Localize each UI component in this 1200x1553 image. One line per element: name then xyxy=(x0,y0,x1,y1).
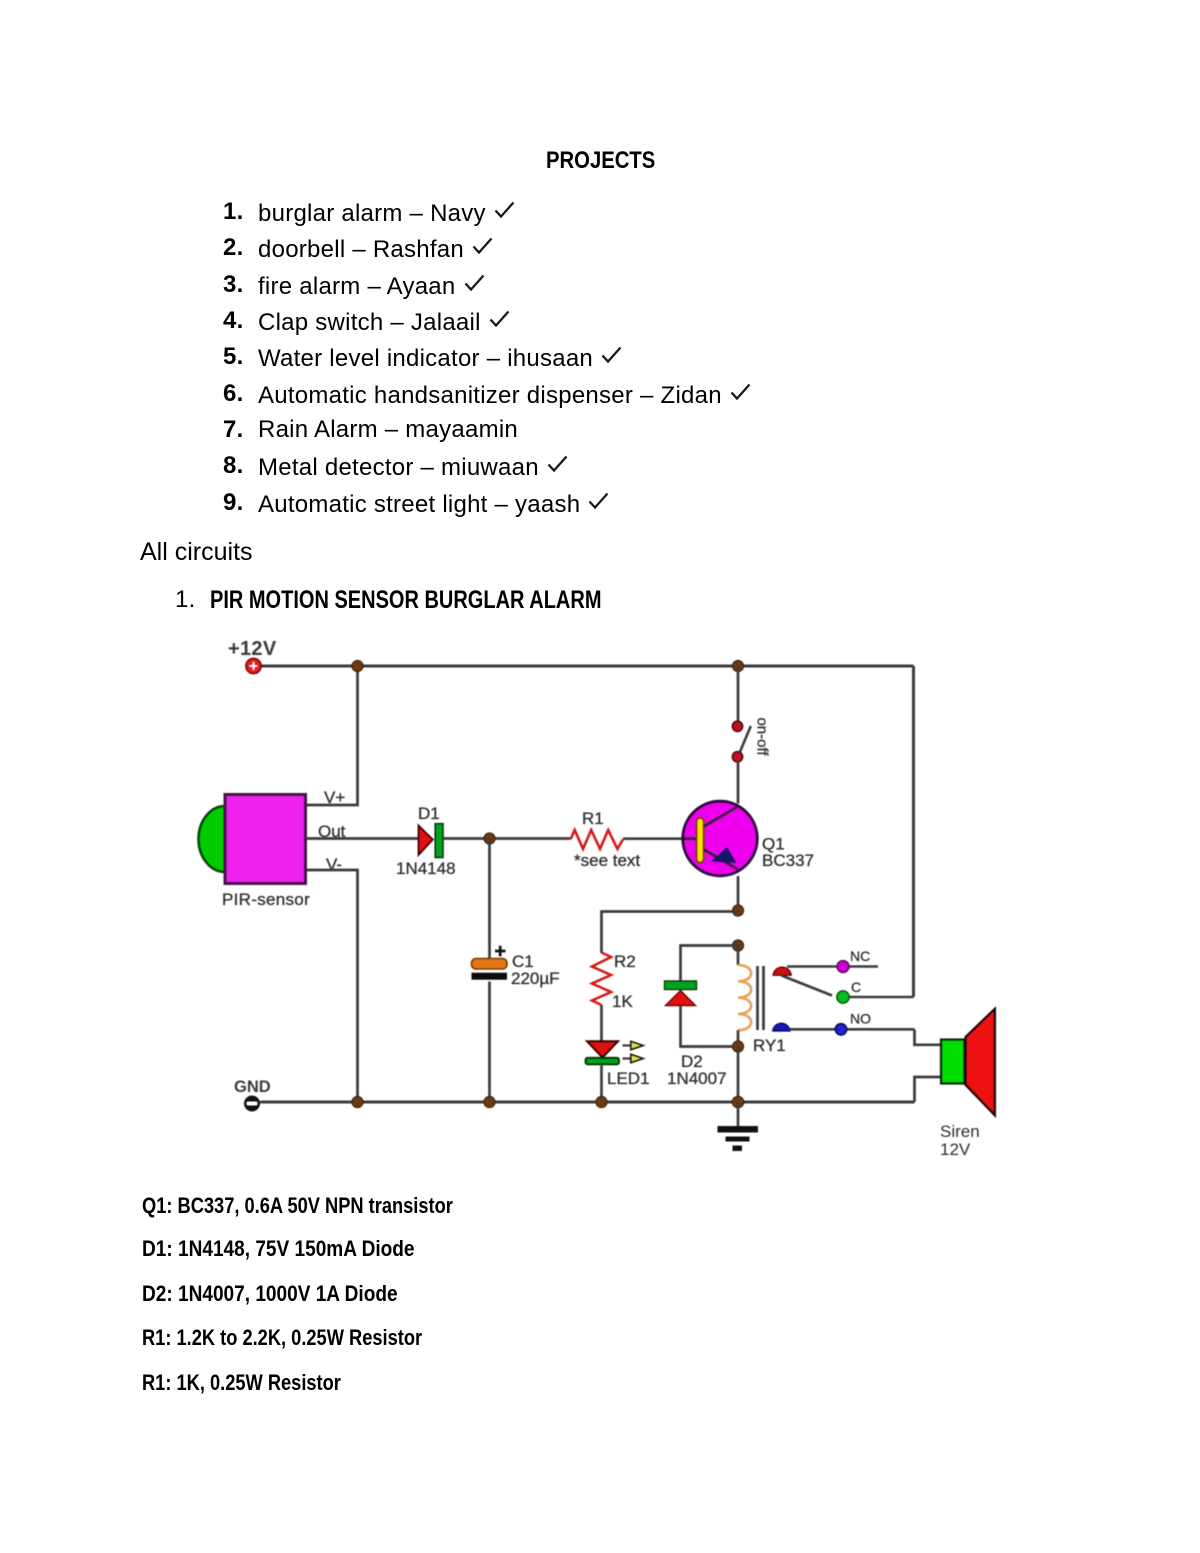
svg-text:on-off: on-off xyxy=(754,717,771,756)
transistor Q1 xyxy=(683,801,758,876)
node label NC xyxy=(850,948,870,964)
svg-text:R1: R1 xyxy=(582,809,604,828)
wire V- stub and vertical to ground rail xyxy=(306,870,358,1102)
svg-text:LED1: LED1 xyxy=(607,1069,650,1088)
junction node at C1 tap xyxy=(484,833,495,844)
power terminal +12V xyxy=(246,658,261,673)
wire D1 to R1 with C1 tap xyxy=(443,837,571,840)
label C1 xyxy=(512,952,534,971)
svg-text:NO: NO xyxy=(850,1011,871,1027)
label Siren xyxy=(940,1122,980,1141)
value 220uF xyxy=(511,969,560,988)
svg-text:1N4007: 1N4007 xyxy=(667,1069,727,1088)
wire right vertical rail xyxy=(912,666,915,997)
resistor R1 xyxy=(571,830,624,849)
value 1K xyxy=(612,992,633,1011)
node V- xyxy=(326,855,342,874)
junction ground rail at C1 xyxy=(484,1096,495,1107)
svg-text:V+: V+ xyxy=(324,788,345,807)
wire ground rail xyxy=(260,1101,915,1104)
value 1N4148 xyxy=(396,859,456,878)
label 12V xyxy=(940,1140,971,1159)
ground terminal GND xyxy=(244,1096,260,1112)
component list text xyxy=(142,1195,453,1217)
label Q1 xyxy=(762,835,785,854)
diode D1 xyxy=(419,824,444,858)
svg-text:*see text: *see text xyxy=(574,851,640,870)
ground symbol xyxy=(718,1102,759,1151)
PIR sensor lens xyxy=(199,806,226,872)
node label NO xyxy=(850,1011,871,1027)
wire switch to Q1 collector xyxy=(737,761,740,804)
LED1 light arrows xyxy=(623,1041,644,1063)
wire R2 to LED1 xyxy=(600,1005,603,1042)
junction ground rail at relay xyxy=(732,1096,744,1108)
label D2 xyxy=(681,1052,703,1071)
contact C xyxy=(837,991,914,1003)
label R2 xyxy=(614,952,636,971)
relay RY1 coil xyxy=(738,946,764,1047)
LED LED1 xyxy=(586,1041,620,1102)
document title xyxy=(546,147,655,175)
project list xyxy=(223,200,244,224)
contact NO xyxy=(835,1024,847,1036)
svg-text:12V: 12V xyxy=(940,1140,971,1159)
capacitor C1 xyxy=(472,839,508,1103)
wire Out to D1 xyxy=(306,837,418,840)
junction relay top node xyxy=(732,940,743,951)
resistor R2 xyxy=(592,953,611,1006)
section heading xyxy=(140,540,253,565)
svg-text:BC337: BC337 xyxy=(762,851,814,870)
value 1N4007 xyxy=(667,1069,727,1088)
relay NO arm (blue) xyxy=(773,1023,790,1031)
wire emitter node to R2 branch xyxy=(602,912,739,954)
junction relay bottom node xyxy=(732,1041,743,1052)
svg-text:Siren: Siren xyxy=(940,1122,980,1141)
label +12V xyxy=(228,638,277,660)
siren speaker xyxy=(941,1009,995,1116)
diode D2 xyxy=(665,981,697,1006)
label on-off (rotated) xyxy=(754,717,771,756)
relay armature lever xyxy=(782,976,833,996)
svg-text:D1: D1 xyxy=(418,804,440,823)
label PIR-sensor xyxy=(222,890,310,909)
wire ground rail step to siren bottom xyxy=(915,1077,942,1102)
label R1 xyxy=(582,809,604,828)
label GND xyxy=(234,1078,271,1096)
switch on-off xyxy=(732,721,751,762)
junction top rail left xyxy=(352,660,363,671)
node V+ xyxy=(324,788,345,807)
svg-text:PIR-sensor: PIR-sensor xyxy=(222,890,310,909)
node label C xyxy=(851,979,861,995)
wire D2 bottom xyxy=(681,1006,739,1047)
label LED1 xyxy=(607,1069,650,1088)
svg-text:220µF: 220µF xyxy=(511,969,560,988)
PIR sensor body xyxy=(225,795,306,884)
svg-text:1N4148: 1N4148 xyxy=(396,859,456,878)
junction ground rail at LED1 xyxy=(596,1096,607,1107)
label RY1 xyxy=(753,1036,786,1055)
svg-text:C: C xyxy=(851,979,861,995)
note see text xyxy=(574,851,640,870)
svg-text:GND: GND xyxy=(234,1078,271,1096)
wire NO to siren top xyxy=(915,1030,942,1045)
junction top rail right xyxy=(732,660,743,671)
junction emitter node xyxy=(732,905,743,916)
svg-text:RY1: RY1 xyxy=(753,1036,786,1055)
label D1 xyxy=(418,804,440,823)
contact NC xyxy=(787,961,878,973)
svg-text:NC: NC xyxy=(850,948,870,964)
wire V+ vertical from top rail xyxy=(306,666,358,805)
wire relay bottom to ground rail xyxy=(737,1047,740,1103)
wire R1 to Q1 base xyxy=(623,837,684,840)
relay armature pivot (red) xyxy=(773,967,791,975)
wire Q1 emitter down xyxy=(737,876,740,912)
wire top +12V rail xyxy=(261,665,914,668)
svg-text:1K: 1K xyxy=(612,992,633,1011)
svg-text:R2: R2 xyxy=(614,952,636,971)
svg-text:+12V: +12V xyxy=(228,638,277,660)
circuit heading xyxy=(175,588,196,612)
wire D2 branch top xyxy=(681,946,739,982)
node Out xyxy=(318,822,346,841)
contact NO wire xyxy=(789,1028,915,1031)
wire rail to switch top xyxy=(737,666,740,721)
junction ground rail at V- xyxy=(352,1096,363,1107)
value BC337 xyxy=(762,851,814,870)
